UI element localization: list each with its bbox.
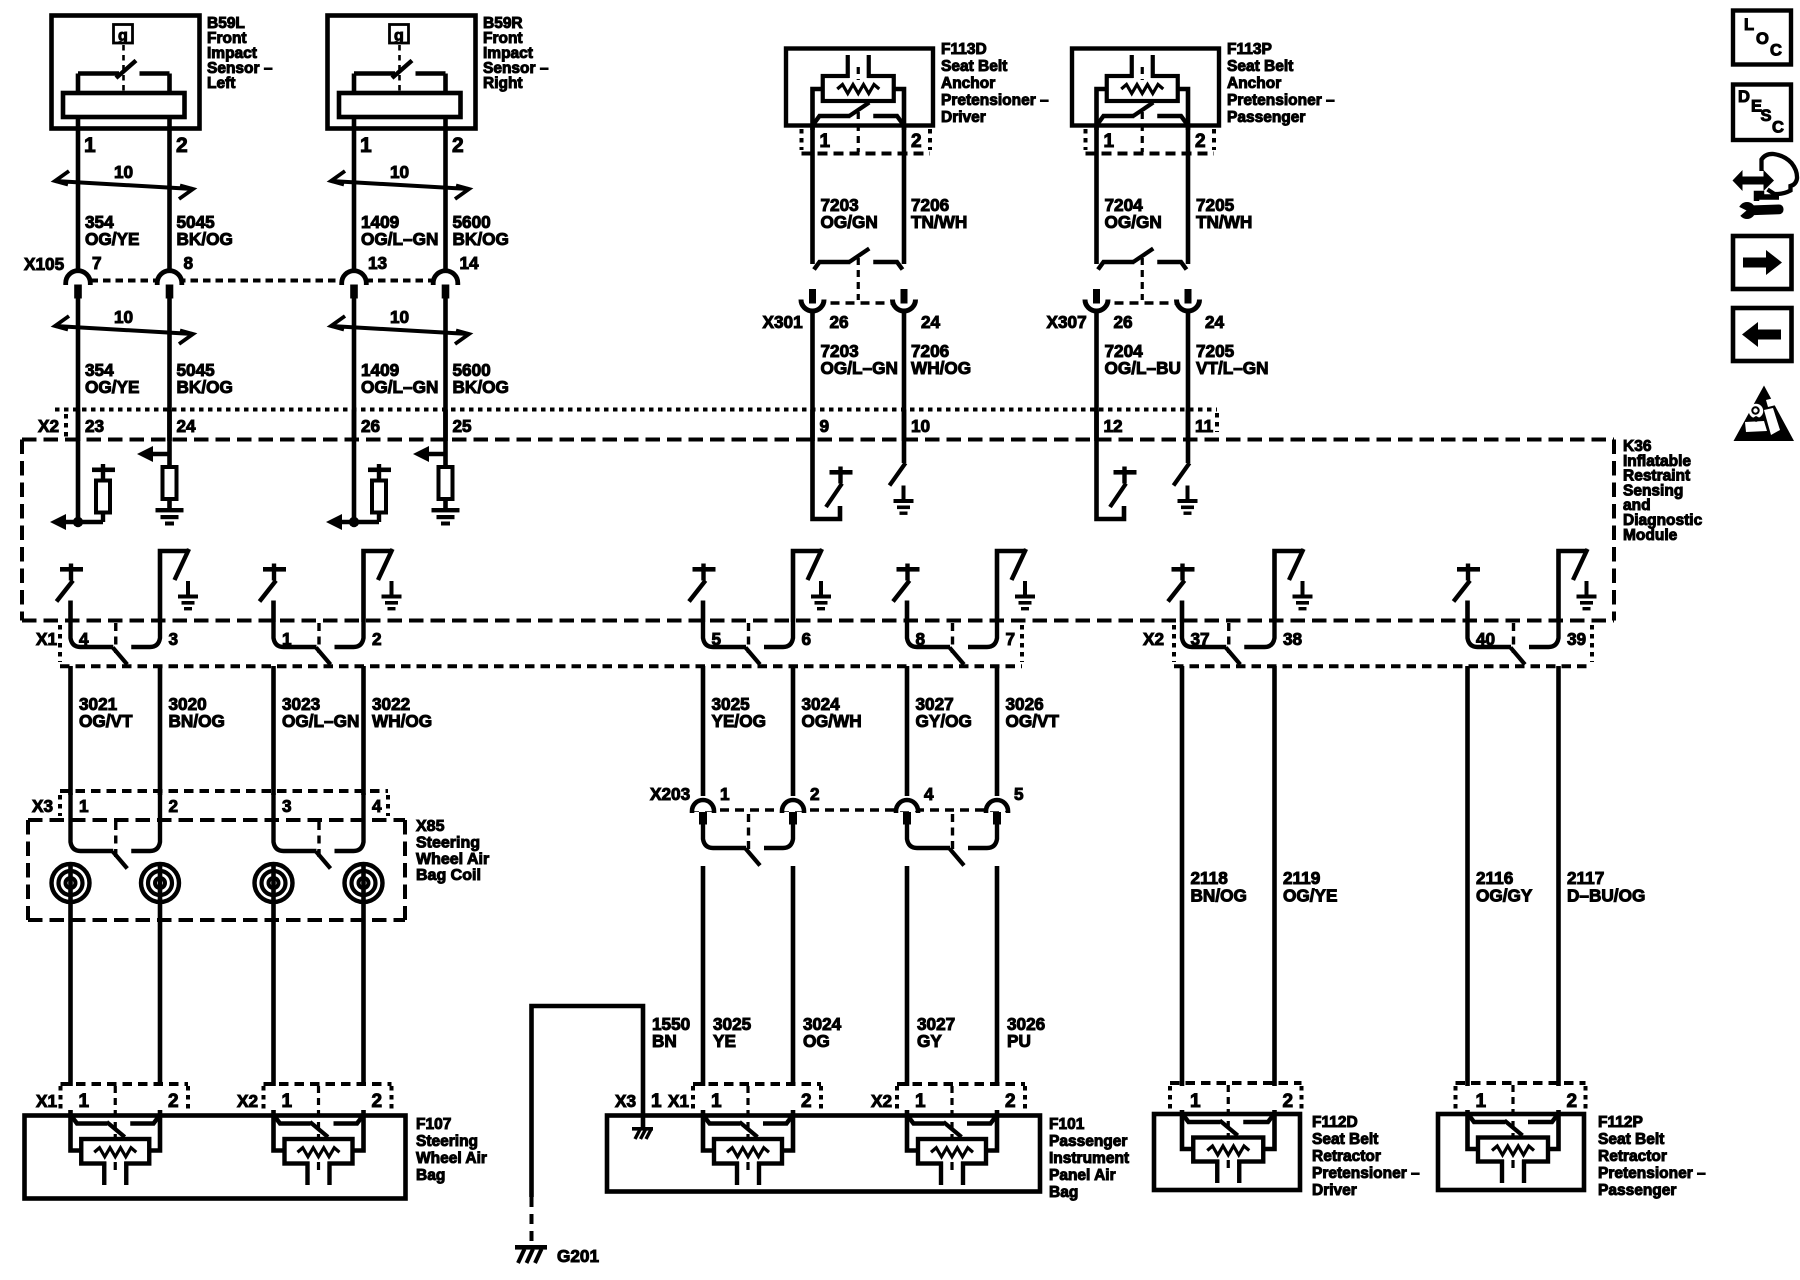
connector pin label 6	[802, 629, 812, 649]
F113P harness shorting clip	[1098, 249, 1187, 301]
F112P squib	[1468, 1085, 1559, 1183]
X203 terminal pin 2	[782, 784, 820, 825]
svg-text:OG: OG	[803, 1031, 830, 1051]
X2 pin 11	[1195, 416, 1214, 436]
X307 terminal pin 24	[1177, 289, 1225, 332]
X3 pin 2	[169, 796, 179, 816]
svg-text:8: 8	[184, 253, 194, 273]
svg-text:YE: YE	[713, 1031, 736, 1051]
wire label 7203 OG/GN	[821, 195, 878, 232]
svg-text:Anchor: Anchor	[1227, 75, 1281, 92]
svg-text:VT/L–GN: VT/L–GN	[1196, 358, 1269, 378]
K36 firing switch at pin X1-1	[260, 564, 287, 623]
svg-text:OG/L–BU: OG/L–BU	[1105, 358, 1181, 378]
svg-text:OG/GY: OG/GY	[1476, 886, 1533, 906]
svg-text:X1: X1	[668, 1091, 689, 1111]
X2 pin 12	[1104, 416, 1123, 436]
svg-text:X301: X301	[763, 312, 804, 332]
X2 pin 23	[85, 416, 104, 436]
svg-text:OG/VT: OG/VT	[1006, 711, 1060, 731]
svg-text:2: 2	[1195, 131, 1206, 152]
svg-text:25: 25	[453, 416, 473, 436]
F113D connector pins 1 2	[802, 129, 931, 154]
F107 connector X1	[36, 1084, 188, 1112]
wire F113P pin 1 down	[1094, 126, 1099, 264]
wire label 3026 OG/VT	[1006, 694, 1060, 731]
svg-text:D–BU/OG: D–BU/OG	[1567, 886, 1645, 906]
svg-text:GY/OG: GY/OG	[916, 711, 972, 731]
svg-text:Seat Belt: Seat Belt	[941, 58, 1007, 75]
F101 chassis ground at X3 pin 1	[632, 1115, 653, 1139]
svg-text:38: 38	[1283, 629, 1303, 649]
wire from B59R pin 2 to X105	[443, 117, 448, 272]
wire from X203 to F101	[791, 866, 796, 1086]
F101 label	[1049, 1116, 1129, 1201]
connector pin label 3	[169, 629, 179, 649]
svg-text:Retractor: Retractor	[1312, 1148, 1381, 1165]
wire label 1409 OG/L–GN lower	[361, 360, 438, 397]
K36 ground switch at pin X1-2	[364, 549, 402, 622]
B59R g-sensor symbol	[390, 25, 409, 92]
wire label 3027 GY/OG	[916, 694, 972, 731]
svg-text:2: 2	[1567, 1091, 1578, 1112]
svg-text:OG/GN: OG/GN	[1105, 212, 1162, 232]
svg-text:26: 26	[361, 416, 380, 436]
svg-text:X105: X105	[24, 254, 65, 274]
inline connector X203	[650, 784, 1010, 810]
F113D squib	[823, 55, 894, 101]
K36 deploy loop ground switch pin 10	[890, 410, 914, 515]
svg-text:OG/YE: OG/YE	[1283, 886, 1337, 906]
wire gauge 10 marker lower left pair	[55, 307, 193, 344]
svg-text:X307: X307	[1047, 312, 1087, 332]
svg-text:TN/WH: TN/WH	[1196, 212, 1252, 232]
svg-text:Instrument: Instrument	[1049, 1150, 1129, 1167]
wire from B59R pin 1 to X105	[352, 117, 357, 272]
svg-text:2: 2	[1005, 1091, 1016, 1112]
svg-text:Passenger: Passenger	[1049, 1133, 1127, 1150]
K36 deploy loop switch pin 9	[813, 410, 853, 520]
wire gauge 10 marker upper B59L	[55, 162, 193, 199]
K36 ground switch at pin X1-7	[997, 549, 1035, 622]
K36 module label	[1623, 438, 1703, 544]
svg-text:Panel Air: Panel Air	[1049, 1167, 1116, 1184]
svg-text:F107: F107	[416, 1116, 451, 1133]
svg-text:X203: X203	[650, 784, 690, 804]
connector pin label 37	[1191, 629, 1210, 649]
wire label 7206 TN/WH	[911, 195, 967, 232]
connector terminal pair at 273/363	[274, 622, 364, 665]
svg-text:2: 2	[911, 131, 922, 152]
X3 terminal pair at 273/363	[274, 793, 364, 869]
X2 pin 9	[820, 416, 830, 436]
svg-text:Pretensioner –: Pretensioner –	[1598, 1165, 1706, 1182]
svg-text:O: O	[1756, 30, 1769, 48]
F107 label	[416, 1116, 487, 1184]
svg-text:1: 1	[720, 784, 730, 804]
F112D squib	[1182, 1085, 1275, 1183]
wire 5045 BK/OG from X105 to K36 X2	[167, 297, 172, 442]
svg-text:Module: Module	[1623, 527, 1678, 544]
svg-text:Steering: Steering	[416, 834, 480, 851]
wire 3020 BN/OG	[158, 666, 163, 795]
coil winding 3 of X85	[255, 864, 293, 902]
svg-text:OG/VT: OG/VT	[79, 711, 133, 731]
svg-text:3: 3	[169, 629, 179, 649]
connector X3 row	[32, 791, 388, 816]
connector pin label 38	[1283, 629, 1303, 649]
X3 terminal pair at 70/160	[71, 793, 161, 869]
F113D label	[941, 41, 1049, 126]
connector terminal pair at 907/997	[907, 622, 997, 665]
svg-text:F101: F101	[1049, 1116, 1085, 1133]
K36 input circuit 1409 (pin 26) with pull resistor and arrow	[326, 410, 391, 531]
svg-text:14: 14	[460, 253, 480, 273]
svg-text:OG/L–GN: OG/L–GN	[282, 711, 359, 731]
svg-text:24: 24	[1205, 312, 1225, 332]
X2 pin 10	[911, 416, 930, 436]
B59R pin 2	[452, 134, 464, 157]
X2 pin 25	[453, 416, 473, 436]
wire F113D pin 2 down	[902, 126, 907, 264]
wire from coil 3 to air bag	[271, 902, 276, 1086]
wire label 7206 WH/OG	[911, 341, 971, 378]
wire 3025 YE/OG	[701, 666, 706, 796]
wire from B59L pin 2 to X105	[167, 117, 172, 272]
connector pin label 5	[712, 629, 722, 649]
seat belt retractor pretensioner F112P box	[1438, 1114, 1584, 1190]
svg-text:BN: BN	[652, 1031, 677, 1051]
K36 input circuit 5600 (pin 25) resistor to ground	[413, 410, 460, 526]
wire label 7204 OG/GN	[1105, 195, 1162, 232]
svg-text:OG/L–GN: OG/L–GN	[361, 229, 438, 249]
wire label 3023 OG/L–GN	[282, 694, 359, 731]
svg-text:26: 26	[830, 312, 849, 332]
svg-text:Anchor: Anchor	[941, 75, 995, 92]
svg-text:Pretensioner –: Pretensioner –	[941, 92, 1049, 109]
svg-text:1: 1	[79, 1091, 90, 1112]
svg-text:2: 2	[372, 629, 382, 649]
svg-text:C: C	[1770, 42, 1782, 60]
svg-text:Pretensioner –: Pretensioner –	[1227, 92, 1335, 109]
svg-text:L: L	[1744, 16, 1754, 34]
wire 3027 GY/OG	[905, 666, 910, 796]
connector pin label 39	[1567, 629, 1586, 649]
svg-text:TN/WH: TN/WH	[911, 212, 967, 232]
F101 squib circuit 1	[703, 1086, 793, 1185]
wire from X203 to F101	[905, 866, 910, 1086]
seat belt anchor pretensioner F113P box	[1072, 49, 1219, 126]
K36 firing switch at pin X2-37	[1168, 564, 1195, 623]
wire from coil 1 to air bag	[68, 902, 73, 1086]
icon LOC box	[1733, 11, 1791, 65]
wire 3021 OG/VT	[68, 666, 73, 795]
K36 deploy loop ground switch pin 11	[1174, 410, 1198, 515]
F112P connector	[1456, 1083, 1586, 1112]
F112D connector	[1170, 1083, 1302, 1112]
X3 pin 3	[282, 796, 292, 816]
svg-text:11: 11	[1195, 416, 1214, 436]
svg-text:X2: X2	[38, 416, 59, 436]
wire label 2116 OG/GY	[1476, 868, 1533, 906]
connector pin label 1	[282, 629, 292, 649]
svg-text:7: 7	[1006, 629, 1016, 649]
K36 connector X2 bottom row	[1143, 625, 1592, 666]
wire 354 OG/YE from X105 to K36 X2	[76, 297, 81, 442]
front impact sensor B59R box	[328, 16, 476, 129]
coil winding 4 of X85	[345, 864, 383, 902]
svg-text:1: 1	[1476, 1091, 1487, 1112]
X105 terminal pin 7	[66, 253, 102, 299]
wire label 354 OG/YE left-1 upper	[85, 212, 139, 249]
wire label 7205 TN/WH	[1196, 195, 1252, 232]
F107 driver squib circuit 2	[274, 1086, 364, 1185]
K36 ground switch at pin X1-6	[793, 549, 831, 622]
wire gauge 10 marker lower right pair	[331, 307, 469, 344]
X85 label	[416, 818, 489, 884]
wire gauge 10 marker upper B59R	[331, 162, 469, 199]
svg-text:C: C	[1772, 119, 1784, 137]
svg-text:10: 10	[911, 416, 930, 436]
svg-text:5: 5	[1014, 784, 1024, 804]
X203 terminal pair at 907/997	[907, 814, 997, 866]
K36 firing switch at pin X2-40	[1454, 564, 1481, 623]
svg-text:Driver: Driver	[941, 109, 986, 126]
wire label 5600 BK/OG right-2 upper	[453, 212, 509, 249]
F113D internal wiring	[813, 89, 905, 130]
svg-text:F113P: F113P	[1227, 41, 1272, 58]
wire label 7203 OG/L–GN	[821, 341, 898, 378]
wire 5600 BK/OG from X105 to K36 X2	[443, 297, 448, 442]
wire 1409 OG/L-GN from X105 to K36 X2	[352, 297, 357, 442]
seat belt retractor pretensioner F112D box	[1154, 1114, 1300, 1190]
svg-text:26: 26	[1114, 312, 1133, 332]
svg-text:12: 12	[1104, 416, 1123, 436]
svg-text:2: 2	[1283, 1091, 1294, 1112]
svg-text:OG/YE: OG/YE	[85, 229, 139, 249]
svg-text:WH/OG: WH/OG	[372, 711, 432, 731]
connector pin label 2	[372, 629, 382, 649]
svg-text:PU: PU	[1007, 1031, 1031, 1051]
svg-text:Bag: Bag	[416, 1167, 445, 1184]
wire F113P pin 2 down	[1186, 126, 1191, 264]
steering wheel air bag F107 box	[25, 1116, 406, 1199]
svg-text:Left: Left	[207, 75, 235, 92]
X105 terminal pin 13	[342, 253, 387, 299]
wire label 7204 OG/L–BU	[1105, 341, 1181, 378]
seat belt anchor pretensioner F113D box	[786, 49, 933, 126]
svg-text:X3: X3	[32, 796, 53, 816]
F101 connector X3 pin 1	[615, 1091, 662, 1112]
icon back arrow box	[1733, 308, 1792, 361]
wire label 354 OG/YE lower	[85, 360, 139, 397]
connector pin label 4	[79, 629, 89, 649]
inline connector X301	[763, 303, 918, 332]
wire label 7205 VT/L–GN	[1196, 341, 1269, 378]
K36 ground switch at pin X2-38	[1275, 549, 1313, 622]
svg-text:Passenger: Passenger	[1598, 1182, 1676, 1199]
svg-text:2: 2	[801, 1091, 812, 1112]
svg-text:2: 2	[372, 1091, 383, 1112]
F113D harness shorting clip	[814, 249, 903, 301]
wire F113P-2 from X307 to K36	[1186, 313, 1191, 441]
svg-text:Seat Belt: Seat Belt	[1312, 1131, 1378, 1148]
svg-text:GY: GY	[917, 1031, 942, 1051]
X203 terminal pin 1	[692, 784, 730, 825]
wire label 1550 BN	[652, 1014, 690, 1051]
wire from X203 to F101	[995, 866, 1000, 1086]
svg-text:Seat Belt: Seat Belt	[1227, 58, 1293, 75]
F113D shorting clip	[814, 103, 903, 153]
X301 terminal pin 26	[801, 289, 849, 332]
svg-text:1: 1	[360, 134, 372, 157]
svg-text:BK/OG: BK/OG	[177, 229, 233, 249]
svg-text:1: 1	[79, 796, 89, 816]
svg-text:OG/YE: OG/YE	[85, 377, 139, 397]
svg-text:2: 2	[169, 796, 179, 816]
connector pin label 7	[1006, 629, 1016, 649]
svg-text:Wheel Air: Wheel Air	[416, 1150, 487, 1167]
svg-text:2: 2	[168, 1091, 179, 1112]
F101 connector X2	[871, 1084, 1025, 1112]
inline connector X105	[24, 254, 446, 281]
svg-text:10: 10	[390, 162, 409, 182]
F112D label	[1312, 1114, 1420, 1199]
wire 3024 OG/WH	[791, 666, 796, 796]
svg-text:23: 23	[85, 416, 104, 436]
wire label 2118 BN/OG	[1191, 868, 1247, 906]
connector terminal pair at 1467/1558	[1468, 622, 1559, 665]
svg-text:1: 1	[651, 1091, 662, 1112]
svg-text:3: 3	[282, 796, 292, 816]
front impact sensor B59L box	[52, 16, 200, 129]
svg-text:g: g	[118, 28, 128, 45]
wire label 3024 OG	[803, 1014, 842, 1051]
svg-text:24: 24	[177, 416, 197, 436]
F113P label	[1227, 41, 1335, 126]
svg-text:Right: Right	[483, 75, 523, 92]
svg-text:24: 24	[921, 312, 941, 332]
F113P squib	[1107, 55, 1178, 101]
F113P shorting clip	[1098, 103, 1187, 153]
svg-text:YE/OG: YE/OG	[712, 711, 766, 731]
X85 steering wheel air bag coil box	[28, 820, 405, 920]
svg-text:9: 9	[820, 416, 830, 436]
wire label 3027 GY	[917, 1014, 955, 1051]
svg-text:OG/WH: OG/WH	[802, 711, 862, 731]
svg-text:F113D: F113D	[941, 41, 987, 58]
wire label 3022 WH/OG	[372, 694, 432, 731]
svg-text:BN/OG: BN/OG	[1191, 886, 1247, 906]
svg-text:BK/OG: BK/OG	[453, 229, 509, 249]
svg-text:1: 1	[711, 1091, 722, 1112]
F101 squib circuit 2	[907, 1086, 997, 1185]
X203 terminal pin 4	[896, 784, 934, 825]
svg-text:1: 1	[820, 131, 831, 152]
svg-text:1: 1	[915, 1091, 926, 1112]
B59R pin 1	[360, 134, 372, 157]
svg-text:2: 2	[810, 784, 820, 804]
svg-text:OG/L–GN: OG/L–GN	[821, 358, 898, 378]
svg-text:6: 6	[802, 629, 812, 649]
wire 3023 OG/L-GN	[271, 666, 276, 795]
coil winding 1 of X85	[52, 864, 90, 902]
X105 terminal pin 14	[433, 253, 479, 299]
svg-text:G201: G201	[557, 1246, 599, 1266]
K36 connector X1 row	[36, 625, 1022, 666]
F113P internal wiring	[1097, 89, 1189, 130]
icon DESC box	[1733, 85, 1791, 141]
B59L g-sensor symbol	[114, 25, 133, 92]
svg-text:F112D: F112D	[1312, 1114, 1358, 1131]
wire from coil 2 to air bag	[158, 902, 163, 1086]
sensor B59L label	[207, 15, 273, 92]
wire 2118 BN/OG	[1180, 666, 1185, 1086]
X105 terminal pin 8	[157, 253, 193, 299]
icon wrench and arrows	[1733, 154, 1798, 219]
svg-text:1: 1	[282, 1091, 293, 1112]
svg-text:BK/OG: BK/OG	[453, 377, 509, 397]
X203 terminal pair at 703/793	[703, 814, 793, 866]
svg-text:X1: X1	[36, 1091, 57, 1111]
svg-text:10: 10	[390, 307, 409, 327]
svg-text:g: g	[394, 28, 404, 45]
ground G201	[515, 1245, 599, 1266]
svg-text:Driver: Driver	[1312, 1182, 1357, 1199]
B59L internal switch	[78, 61, 170, 94]
svg-text:X3: X3	[615, 1091, 636, 1111]
wire F113P-1 from X307 to K36	[1094, 313, 1099, 441]
svg-text:4: 4	[372, 796, 382, 816]
B59R internal switch	[354, 61, 446, 94]
K36 ground switch at pin X1-3	[160, 549, 198, 622]
wire 2116 OG/GY	[1465, 666, 1470, 1086]
F113P connector pins 1 2	[1086, 129, 1215, 154]
wire F113D-1 from X301 to K36	[810, 313, 815, 441]
passenger instrument panel air bag F101 box	[607, 1116, 1040, 1192]
svg-text:Bag: Bag	[1049, 1184, 1078, 1201]
svg-text:X85: X85	[416, 818, 445, 835]
wire 3026 OG/VT	[995, 666, 1000, 796]
wire label 3024 OG/WH	[802, 694, 862, 731]
wire F113D-2 from X301 to K36	[902, 313, 907, 441]
svg-text:X2: X2	[237, 1091, 258, 1111]
connector pin label 8	[916, 629, 926, 649]
X3 pin 4	[372, 796, 382, 816]
wire 2117 D-BU/OG	[1556, 666, 1561, 1086]
B59L pin 2	[176, 134, 188, 157]
wire 3022 WH/OG	[361, 666, 366, 795]
svg-text:X2: X2	[871, 1091, 892, 1111]
icon forward arrow box	[1733, 236, 1792, 289]
X2 pin 26	[361, 416, 380, 436]
K36 firing switch at pin X1-8	[893, 564, 920, 623]
K36 inflatable restraint sensing and diagnostic module box	[22, 440, 1614, 621]
connector terminal pair at 70/160	[71, 622, 161, 665]
K36 firing switch at pin X1-4	[57, 564, 84, 623]
svg-text:Steering: Steering	[416, 1133, 478, 1150]
F107 driver squib circuit 1	[71, 1086, 161, 1185]
F101 connector X1	[668, 1084, 821, 1112]
svg-text:Retractor: Retractor	[1598, 1148, 1667, 1165]
X2 pin 24	[177, 416, 197, 436]
K36 input circuit 354 (pin 23) with pull resistor and arrow	[50, 410, 115, 531]
wire label 3025 YE/OG	[712, 694, 766, 731]
svg-text:4: 4	[924, 784, 934, 804]
wire label 5045 BK/OG lower	[177, 360, 233, 397]
X307 terminal pin 26	[1085, 289, 1133, 332]
svg-text:Seat Belt: Seat Belt	[1598, 1131, 1664, 1148]
